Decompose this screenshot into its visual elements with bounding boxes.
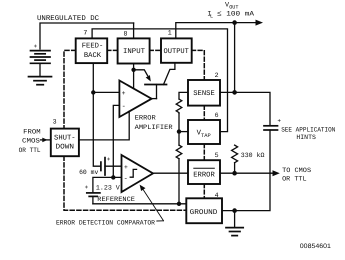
comparator U2 error detection xyxy=(122,155,154,192)
wire feedback node down to error amp + input xyxy=(93,63,119,166)
node junction error row xyxy=(232,171,237,176)
svg-text:ERROR: ERROR xyxy=(135,115,156,122)
box pin 5 ERROR xyxy=(188,160,220,184)
svg-text:8: 8 xyxy=(124,31,128,38)
battery BT2 60 mV offset xyxy=(101,158,122,175)
svg-text:6: 6 xyxy=(215,112,219,119)
wire comparator output to ERROR pin xyxy=(153,172,188,174)
box pin 3 SHUT-DOWN xyxy=(51,129,79,157)
arrow Q1 emitter (PNP) xyxy=(146,75,151,81)
wire unregulated DC rail xyxy=(40,23,134,49)
svg-text:-: - xyxy=(122,103,126,111)
node junction reference top xyxy=(111,175,115,179)
node junction feedback-erroramp xyxy=(91,90,95,94)
arrow to cmos or ttl xyxy=(273,170,280,176)
svg-text:REFERENCE: REFERENCE xyxy=(97,196,135,203)
node junction vtap divider xyxy=(177,129,181,133)
svg-text:AMPLIFIER: AMPLIFIER xyxy=(135,124,173,131)
resistor R2 lower divider xyxy=(176,132,182,204)
svg-text:SENSE: SENSE xyxy=(193,90,215,98)
svg-text:+: + xyxy=(107,156,111,163)
svg-text:+: + xyxy=(124,164,128,171)
transistor Q1 pass PNP xyxy=(134,63,175,99)
comparator hysteresis symbol xyxy=(130,169,138,177)
dashed boundary vtap to error xyxy=(203,144,205,160)
svg-text:L: L xyxy=(210,13,213,19)
wire VOUT rail down to sense row xyxy=(234,23,236,93)
capacitor C1 output xyxy=(264,126,278,130)
arrow pointer head at comparator xyxy=(140,185,146,191)
svg-text:-: - xyxy=(124,176,128,184)
battery BT1 unregulated DC source xyxy=(31,51,51,76)
svg-text:2: 2 xyxy=(215,72,219,79)
svg-text:≤ 100 mA: ≤ 100 mA xyxy=(217,10,255,18)
ground (battery) xyxy=(29,77,52,85)
dashed boundary feedback to input xyxy=(107,49,117,51)
arrow from cmos into shutdown xyxy=(42,138,47,143)
wire ground pin to earth xyxy=(234,211,236,227)
svg-text:330 kΩ: 330 kΩ xyxy=(241,152,265,159)
svg-text:SHUT-: SHUT- xyxy=(54,134,76,142)
svg-text:+: + xyxy=(85,184,89,191)
dashed boundary error to ground xyxy=(203,184,205,198)
svg-text:60 mv: 60 mv xyxy=(79,169,98,176)
ground (output return) xyxy=(226,228,243,236)
svg-text:OR TTL: OR TTL xyxy=(282,176,307,183)
svg-text:ERROR: ERROR xyxy=(193,171,215,179)
dashed package boundary top left xyxy=(64,50,76,128)
svg-text:1.23 V: 1.23 V xyxy=(96,185,120,192)
op-amp U1 error amplifier xyxy=(119,81,151,118)
node junction VOUT rail top xyxy=(232,20,237,25)
wire pin 7 feedback to VTAP (external) xyxy=(92,29,227,132)
svg-text:+: + xyxy=(34,43,38,50)
svg-text:UNREGULATED DC: UNREGULATED DC xyxy=(37,15,100,23)
box pin 8 INPUT xyxy=(118,38,150,63)
wire sense pin to divider xyxy=(179,92,188,99)
dashed boundary output to sense xyxy=(192,50,205,80)
node junction ground return xyxy=(232,208,237,213)
svg-text:BACK: BACK xyxy=(84,52,102,60)
svg-text:OR TTL: OR TTL xyxy=(19,147,41,154)
svg-text:CMOS: CMOS xyxy=(22,137,40,144)
wire VTAP tap node xyxy=(179,131,188,133)
wire error amp - input to reference xyxy=(113,105,119,177)
svg-text:7: 7 xyxy=(83,30,87,37)
resistor R3 330k pull-up xyxy=(232,145,238,173)
node junction input-emitter xyxy=(131,68,135,72)
dashed boundary input to output xyxy=(150,49,161,51)
box pin 7 FEED-BACK xyxy=(76,38,108,63)
wire sense row to output capacitor xyxy=(220,92,270,125)
node junction divider ground xyxy=(177,202,181,206)
svg-text:+: + xyxy=(277,117,281,124)
wire error amp output to Q1 base xyxy=(152,98,157,100)
svg-text:5: 5 xyxy=(215,152,219,159)
box pin 4 GROUND xyxy=(186,198,222,223)
svg-text:OUTPUT: OUTPUT xyxy=(164,48,190,56)
wire pin 1 output to VOUT rail xyxy=(176,23,259,39)
svg-text:DOWN: DOWN xyxy=(56,144,75,152)
svg-text:3: 3 xyxy=(53,118,57,125)
dashed boundary sense to vtap xyxy=(203,106,205,120)
wire internal ground rail xyxy=(93,203,186,205)
svg-text:ERROR DETECTION COMPARATOR: ERROR DETECTION COMPARATOR xyxy=(56,220,155,227)
svg-text:TAP: TAP xyxy=(201,133,211,139)
wire from-cmos arrow into shutdown pin xyxy=(41,139,51,141)
wire comparator - input to 1.23V reference xyxy=(93,177,122,192)
box pin 2 SENSE xyxy=(188,80,220,106)
wire emitter node down to error amplifier supply xyxy=(133,70,135,89)
box pin 1 OUTPUT xyxy=(161,38,192,62)
box pin 6 VTAP xyxy=(188,120,220,144)
wire label pointer to comparator xyxy=(141,187,163,221)
svg-text:TO CMOS: TO CMOS xyxy=(282,167,311,174)
svg-text:00854601: 00854601 xyxy=(300,243,332,250)
svg-text:+: + xyxy=(122,90,126,97)
wire shutdown control to error amplifier xyxy=(79,111,129,140)
wire input pin to pass transistor emitter node xyxy=(133,64,135,70)
svg-text:GROUND: GROUND xyxy=(190,209,218,217)
svg-text:FROM: FROM xyxy=(23,129,40,136)
resistor R1 upper divider xyxy=(176,99,182,132)
svg-text:1: 1 xyxy=(168,30,172,37)
svg-text:INPUT: INPUT xyxy=(123,48,146,56)
svg-text:SEE APPLICATION: SEE APPLICATION xyxy=(281,127,335,134)
svg-text:4: 4 xyxy=(215,192,219,199)
arrow VOUT output xyxy=(256,20,264,26)
battery BT3 1.23V reference xyxy=(87,193,100,204)
svg-text:FEED-: FEED- xyxy=(82,43,104,51)
svg-text:HINTS: HINTS xyxy=(296,134,316,141)
wire ERROR pin to logic output xyxy=(220,172,274,174)
node junction sense row xyxy=(232,90,237,95)
dashed boundary shutdown to ground pin xyxy=(64,156,186,210)
wire capacitor to ground return xyxy=(222,130,270,211)
